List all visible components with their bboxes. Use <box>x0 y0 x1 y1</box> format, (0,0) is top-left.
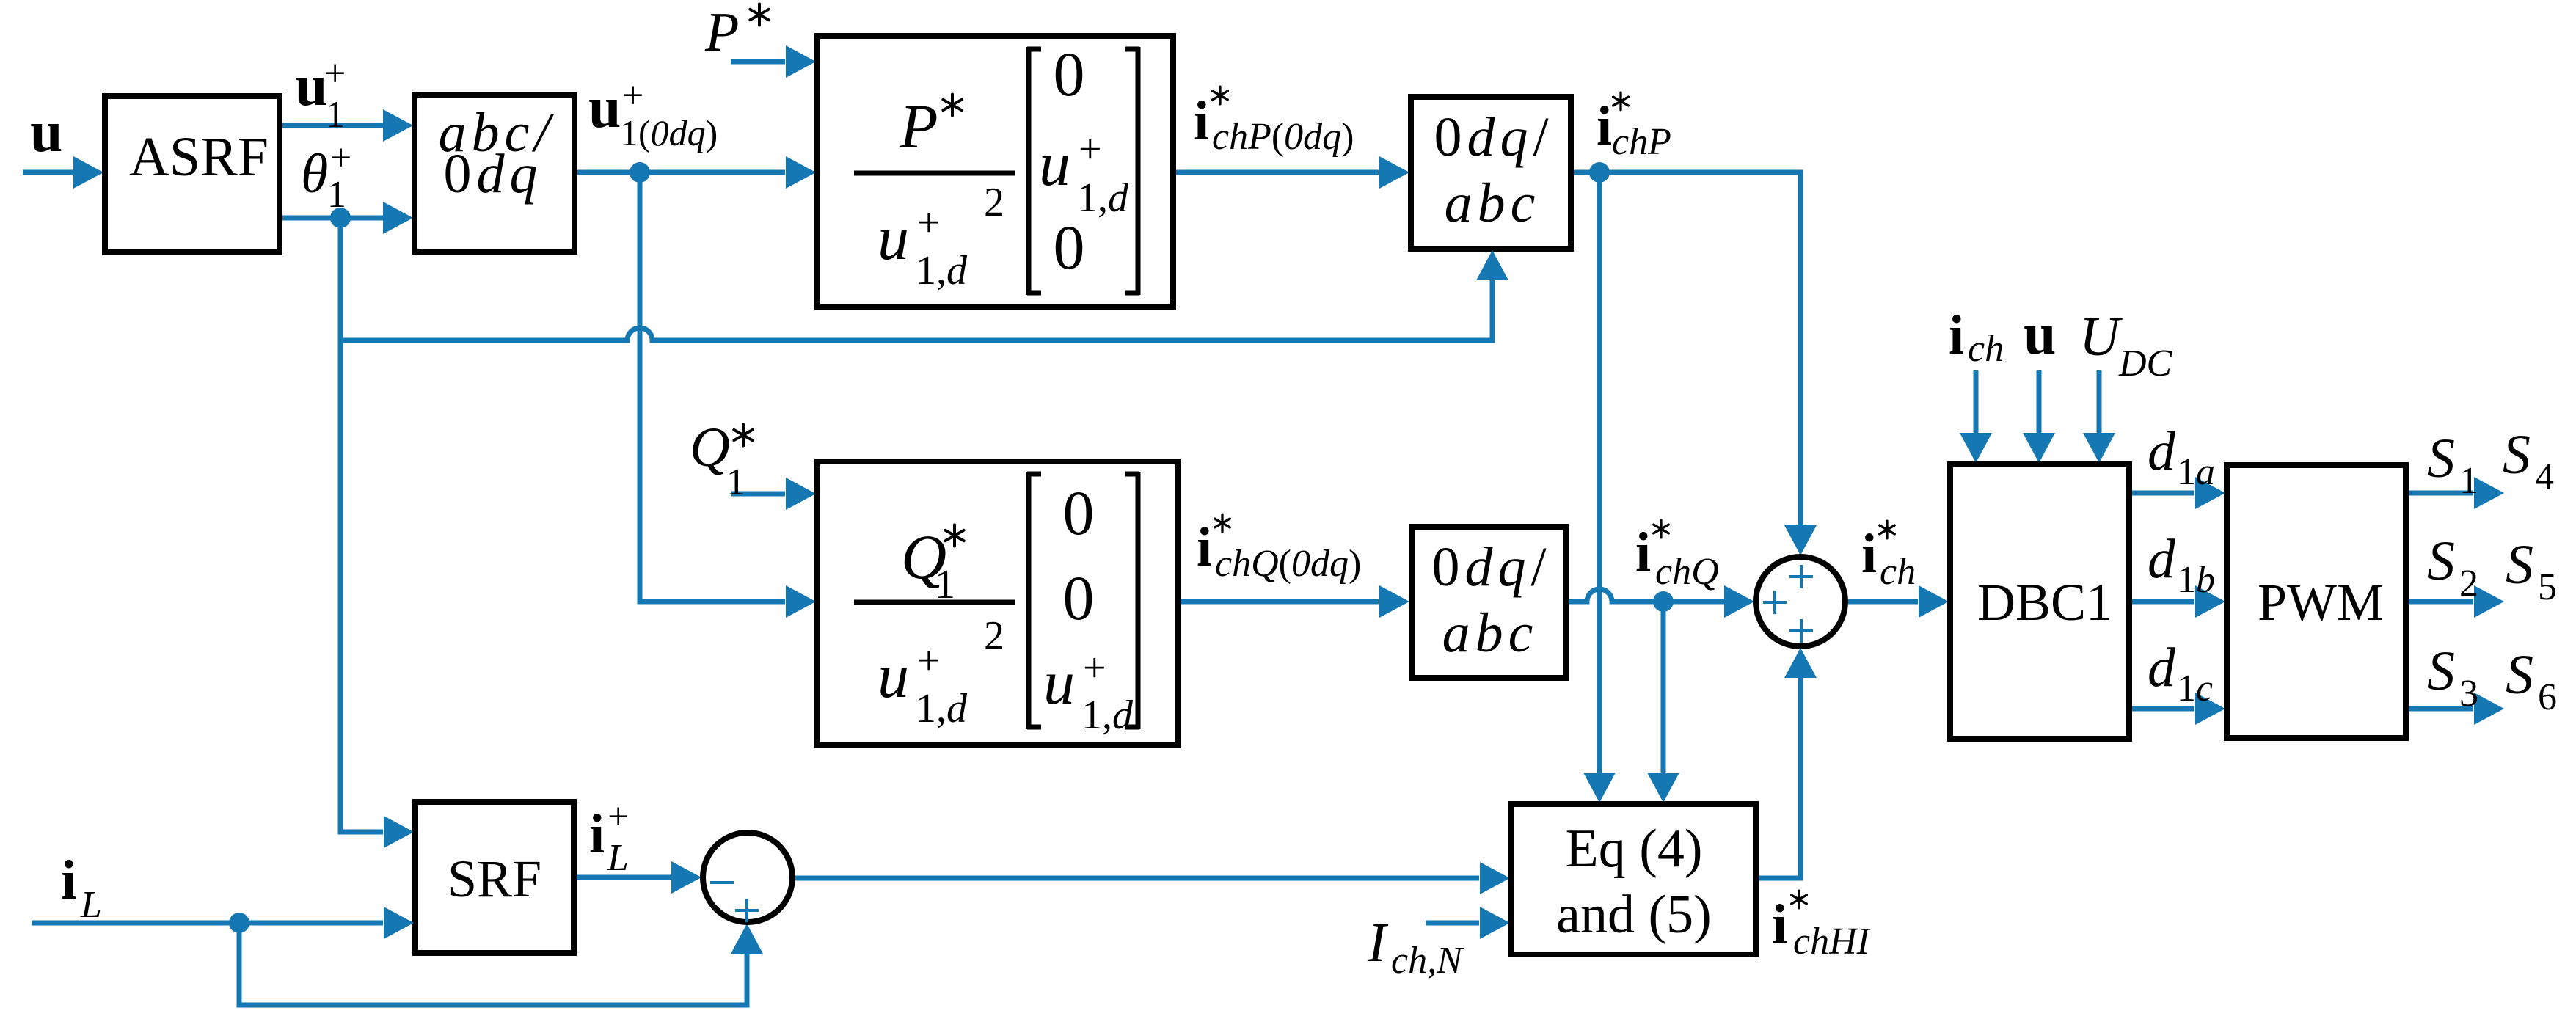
wire u1(0dq) output <box>577 156 816 189</box>
svg-text:P: P <box>899 91 938 161</box>
svg-text:Eq (4): Eq (4) <box>1566 819 1703 879</box>
svg-text:chHI: chHI <box>1793 921 1872 963</box>
svg-text:P: P <box>704 1 739 63</box>
wire theta1+ output <box>282 202 413 234</box>
svg-text:S: S <box>2506 644 2533 706</box>
svg-text:+: + <box>622 75 643 117</box>
wire ichP to summing <box>1574 172 1817 555</box>
wire S1S4 <box>2409 477 2504 509</box>
svg-text:5: 5 <box>2538 566 2557 608</box>
wire P* input <box>731 45 816 78</box>
svg-text:S: S <box>2427 428 2455 489</box>
svg-text:L: L <box>607 837 629 879</box>
svg-text:i: i <box>589 803 605 865</box>
svg-text:1a: 1a <box>2177 451 2215 493</box>
svg-text:1: 1 <box>327 174 346 216</box>
svg-text:u: u <box>2024 302 2057 367</box>
svg-text:U: U <box>2079 306 2123 368</box>
block ASRF <box>105 96 280 252</box>
label S1 <box>2427 428 2478 502</box>
wire ichHI to summing <box>1759 648 1817 878</box>
label iL+ <box>589 796 629 879</box>
svg-text:ch: ch <box>1968 328 2004 370</box>
wire u input <box>23 156 103 189</box>
svg-text:abc: abc <box>1442 602 1539 664</box>
label u1+ <box>295 53 346 136</box>
block 0dq/abc 1 <box>1411 97 1571 249</box>
svg-text:1: 1 <box>2459 460 2478 502</box>
svg-text:0: 0 <box>1063 478 1095 548</box>
label theta1+ <box>301 137 351 216</box>
svg-text:0dq/: 0dq/ <box>1434 106 1553 168</box>
svg-text:u: u <box>1043 647 1075 717</box>
svg-text:+: + <box>1083 646 1106 691</box>
svg-text:i: i <box>1597 95 1612 157</box>
svg-text:3: 3 <box>2459 673 2478 715</box>
svg-text:L: L <box>80 884 102 926</box>
svg-text:S: S <box>2503 424 2531 486</box>
svg-text:6: 6 <box>2538 676 2557 718</box>
svg-text:4: 4 <box>2535 456 2554 498</box>
svg-text:chP(0dq): chP(0dq) <box>1212 116 1354 158</box>
wire theta down to SRF <box>340 218 414 848</box>
wire S2S5 <box>2409 585 2504 618</box>
label ich <box>1861 521 1916 593</box>
svg-text:0dq: 0dq <box>444 143 543 205</box>
label UDC top <box>2079 306 2173 384</box>
svg-text:+: + <box>330 137 351 179</box>
wire d1c <box>2132 693 2225 725</box>
summing junction circle <box>1756 557 1845 646</box>
wire d1b <box>2132 585 2225 618</box>
wire error to Eq <box>795 862 1510 894</box>
svg-text:chP: chP <box>1612 121 1671 163</box>
wire iL feedback <box>239 923 763 1005</box>
svg-text:i: i <box>1197 516 1212 578</box>
svg-text:1,d: 1,d <box>916 248 968 293</box>
svg-text:1,d: 1,d <box>1077 175 1129 221</box>
svg-text:+: + <box>917 638 941 684</box>
svg-text:2: 2 <box>2459 563 2478 605</box>
wire UDC into DBC1 <box>2083 370 2115 463</box>
svg-text:0: 0 <box>1054 212 1085 282</box>
svg-text:u: u <box>1039 128 1070 199</box>
label S3 <box>2427 640 2478 715</box>
wire iL+ output <box>577 861 701 894</box>
svg-text:Q: Q <box>690 417 730 478</box>
svg-text:chQ(0dq): chQ(0dq) <box>1215 543 1361 585</box>
svg-text:0: 0 <box>1054 39 1085 109</box>
svg-text:SRF: SRF <box>448 850 541 908</box>
label S6 <box>2506 644 2557 718</box>
label ich top <box>1949 304 2004 370</box>
svg-text:i: i <box>1861 523 1877 585</box>
svg-text:chQ: chQ <box>1655 551 1719 593</box>
svg-text:PWM: PWM <box>2258 573 2384 632</box>
label d1b <box>2148 528 2215 601</box>
wire Q1* input <box>731 478 816 510</box>
wire ichP down to Eq <box>1583 172 1616 803</box>
wire S3S6 <box>2409 693 2504 725</box>
svg-text:1: 1 <box>326 94 345 136</box>
svg-text:S: S <box>2506 534 2533 596</box>
svg-text:i: i <box>1772 894 1787 955</box>
label IchN <box>1367 912 1464 982</box>
label Q1* <box>690 417 753 503</box>
svg-text:i: i <box>1949 304 1964 366</box>
wire ichP(0dq) <box>1176 156 1409 189</box>
svg-text:+: + <box>607 796 629 838</box>
svg-text:u: u <box>877 640 909 711</box>
svg-text:0: 0 <box>1063 563 1095 633</box>
svg-text:1: 1 <box>726 461 745 503</box>
svg-text:1b: 1b <box>2177 559 2215 601</box>
block Eq <box>1511 804 1756 954</box>
node u1(0dq) junction <box>630 162 650 183</box>
label ichHI <box>1772 891 1872 963</box>
svg-text:0dq/: 0dq/ <box>1431 536 1551 598</box>
svg-text:ch,N: ch,N <box>1391 940 1464 982</box>
wire d1a <box>2132 477 2225 509</box>
svg-text:i: i <box>61 850 76 911</box>
wire u into DBC1 <box>2023 370 2055 463</box>
wire IchN input <box>1426 907 1510 939</box>
label u1(0dq)+ <box>588 75 718 153</box>
svg-text:ASRF: ASRF <box>129 126 269 188</box>
svg-text:1c: 1c <box>2177 668 2213 709</box>
svg-text:+: + <box>324 53 346 95</box>
svg-text:DBC1: DBC1 <box>1977 573 2112 632</box>
svg-text:2: 2 <box>984 613 1004 659</box>
svg-text:u: u <box>588 76 621 140</box>
svg-text:d: d <box>2148 420 2176 482</box>
block P formula <box>817 36 1173 307</box>
svg-text:I: I <box>1367 912 1389 974</box>
svg-text:d: d <box>2148 528 2176 590</box>
label ichP(0dq) <box>1194 87 1354 158</box>
svg-text:i: i <box>1194 90 1209 152</box>
node theta junction <box>330 208 351 228</box>
block DBC1 <box>1950 464 2129 739</box>
svg-text:2: 2 <box>984 180 1004 225</box>
svg-text:i: i <box>1635 522 1651 583</box>
svg-text:1(0dq): 1(0dq) <box>620 112 718 153</box>
svg-text:u: u <box>295 54 328 118</box>
node iL junction <box>229 913 249 933</box>
svg-text:θ: θ <box>301 143 328 205</box>
svg-text:u: u <box>30 100 63 164</box>
svg-text:DC: DC <box>2118 343 2173 384</box>
label d1a <box>2148 420 2215 493</box>
svg-text:ch: ch <box>1880 551 1916 593</box>
label ichP <box>1597 92 1671 163</box>
block PWM <box>2227 465 2406 738</box>
svg-text:S: S <box>2427 640 2455 702</box>
svg-text:u: u <box>877 202 909 273</box>
subtract junction circle <box>703 833 792 922</box>
label ichQ <box>1635 520 1719 593</box>
svg-text:1,d: 1,d <box>916 686 968 731</box>
label iL <box>61 850 102 926</box>
wire ich into DBC1 <box>1960 370 1992 463</box>
wire theta feed to 0dq/abc1 <box>340 250 1508 340</box>
label P* <box>704 1 769 63</box>
wire ichQ(0dq) <box>1181 585 1409 618</box>
node ichP junction <box>1589 162 1610 183</box>
node ichQ junction <box>1653 591 1674 612</box>
label ichQ(0dq) <box>1197 514 1361 585</box>
svg-text:abc: abc <box>1445 172 1541 234</box>
wire iL input <box>32 907 414 939</box>
svg-text:1,d: 1,d <box>1081 693 1134 738</box>
block abc/0dq <box>415 95 574 252</box>
block 0dq/abc 2 <box>1412 527 1566 678</box>
label d1c <box>2148 637 2213 709</box>
svg-text:S: S <box>2427 530 2455 592</box>
svg-text:d: d <box>2148 637 2176 698</box>
label S2 <box>2427 530 2478 605</box>
svg-text:+: + <box>1079 127 1102 172</box>
wire u1+ output <box>282 109 413 142</box>
wire u1(0dq) branch to Q <box>640 172 816 618</box>
label S5 <box>2506 534 2557 608</box>
block SRF <box>415 802 574 953</box>
wire ichQ down to Eq <box>1647 602 1679 803</box>
wire ichQ to summing with hop <box>1569 585 1754 618</box>
svg-text:and (5): and (5) <box>1556 885 1712 945</box>
wire ich output <box>1848 585 1949 618</box>
block Q formula <box>817 461 1178 745</box>
svg-text:+: + <box>917 200 941 246</box>
label S4 <box>2503 424 2554 498</box>
